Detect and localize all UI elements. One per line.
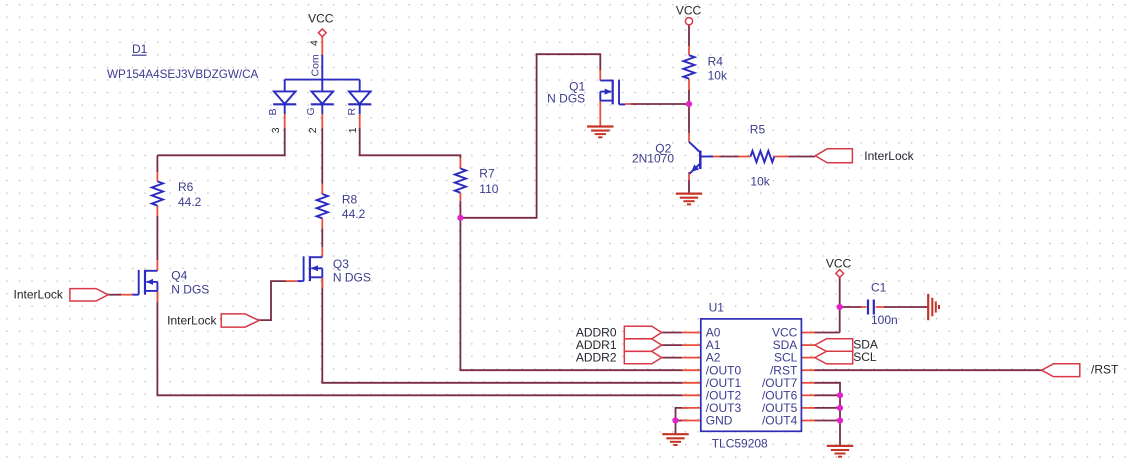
port ADDR0 <box>624 326 661 338</box>
wire R6 column vertical <box>156 155 158 172</box>
pin stub R7 bottom <box>459 193 461 201</box>
svg-text:10k: 10k <box>708 69 728 83</box>
ground C1 rotated <box>927 294 929 320</box>
pin stub Q2 emitter <box>688 172 690 180</box>
wire ADDR2 to A2 pin <box>662 357 682 359</box>
svg-text:Q4: Q4 <box>171 269 187 283</box>
wire Q4 source to /OUT2 row <box>156 291 158 395</box>
wire U1 VCC pin horizontal <box>814 332 840 334</box>
wire LED R to R7 <box>359 154 462 156</box>
ground right rail <box>827 445 853 447</box>
resistor R4 <box>683 55 694 78</box>
wire ADDR1 to A1 pin <box>662 344 682 346</box>
wire node to Q2 collector <box>688 104 690 133</box>
wire R7 bottom to junction <box>459 201 461 218</box>
junction R4 bottom node <box>686 101 692 107</box>
pin stub R6 top <box>156 172 158 181</box>
pin stub Q1 drain <box>599 70 601 81</box>
wire LED G cathode to R8 <box>321 128 323 184</box>
pin stub VCC com <box>321 37 323 56</box>
port InterLock (R5) <box>815 149 852 163</box>
pin stub U1 A1 <box>682 344 701 346</box>
wire R7 top stub <box>459 155 461 158</box>
LED D1 blue element pin 3 <box>284 80 286 92</box>
transistor Q2 <box>699 151 702 170</box>
pin stub Q3 gate <box>286 280 297 282</box>
capacitor C1 <box>867 300 869 315</box>
resistor R5 <box>751 151 775 162</box>
wire Q2 base to R5 <box>720 156 739 158</box>
wire right rail down to ground <box>839 382 841 446</box>
wire GND junction to ground <box>675 421 677 435</box>
wire /OUT4 stub to rail <box>814 420 840 422</box>
junction GND /OUT3 node <box>672 417 678 423</box>
svg-text:B: B <box>267 108 279 115</box>
wire R4 bottom to node <box>688 90 690 104</box>
wire /OUT5 stub to rail <box>814 407 840 409</box>
svg-text:2: 2 <box>307 127 319 133</box>
pin stub U1 /OUT7 <box>801 382 814 384</box>
pin stub R4 top <box>688 46 690 55</box>
resistor R6 <box>152 181 163 205</box>
svg-text:GND: GND <box>706 414 733 428</box>
svg-text:N DGS: N DGS <box>333 271 371 285</box>
svg-text:110: 110 <box>479 182 498 196</box>
svg-text:TLC59208: TLC59208 <box>712 437 768 451</box>
wire LED R cathode down <box>359 128 361 155</box>
op-amp U1 TLC59208 body <box>701 319 802 431</box>
pin stub Q1 source <box>599 101 601 127</box>
pin stub U1 /OUT2 <box>682 394 701 396</box>
pin stub R8 top <box>321 184 323 194</box>
svg-text:Com: Com <box>310 54 322 76</box>
pin stub U1 A0 <box>682 332 701 334</box>
svg-text:R8: R8 <box>342 193 358 207</box>
wire GND pin to junction <box>675 420 688 422</box>
pin stub R4 bottom <box>688 79 690 90</box>
port SCL <box>815 351 853 364</box>
wire /OUT3 to GND junction <box>676 408 689 421</box>
svg-text:1: 1 <box>347 127 359 133</box>
wire /OUT2 horizontal <box>157 394 684 396</box>
svg-text:100n: 100n <box>871 313 898 327</box>
port ADDR2 <box>624 351 661 363</box>
junction /OUT5 rail <box>837 405 843 411</box>
pin stub Q4 gate <box>121 294 132 296</box>
svg-text:R5: R5 <box>750 123 766 137</box>
pin stub C1 left <box>861 306 867 308</box>
svg-text:VCC: VCC <box>676 4 702 18</box>
pin stub R5 right <box>774 156 788 158</box>
wire /OUT0 horizontal <box>460 369 684 371</box>
wire /OUT1 horizontal <box>321 382 683 384</box>
transistor Q3 <box>303 256 305 281</box>
pin stub U1 /OUT5 <box>801 407 814 409</box>
LED D1 green element pin 2 <box>321 80 323 92</box>
transistor Q4 <box>138 270 140 295</box>
VCC symbol U1 (diamond) <box>836 270 844 278</box>
svg-text:R4: R4 <box>708 54 724 68</box>
pin stub U1 /RST <box>801 369 814 371</box>
svg-text:SCL: SCL <box>853 350 877 364</box>
pin stub U1 /OUT1 <box>682 382 701 384</box>
svg-text:44.2: 44.2 <box>342 207 366 221</box>
svg-text:U1: U1 <box>709 300 725 314</box>
ground under Q2 <box>676 193 702 195</box>
wire junction down to /OUT0 row <box>459 218 461 370</box>
svg-text:InterLock: InterLock <box>167 314 217 328</box>
port ADDR1 <box>624 339 661 351</box>
wire R6 to Q4 drain <box>156 216 158 260</box>
VCC symbol top right (circle) <box>685 18 692 25</box>
ground under Q1 <box>587 125 613 127</box>
diode D1 common bus <box>285 79 360 81</box>
svg-text:N DGS: N DGS <box>547 92 585 106</box>
pin stub Q1 gate <box>625 103 631 105</box>
svg-text:InterLock: InterLock <box>14 288 64 302</box>
wire VCC to R4 top <box>688 25 690 46</box>
pin stub U1 /OUT4 <box>801 420 814 422</box>
svg-text:D1: D1 <box>132 42 148 56</box>
pin stub R6 bottom <box>156 206 158 216</box>
junction R7 bottom node <box>457 215 463 221</box>
pin stub U1 /OUT0 <box>682 369 701 371</box>
svg-text:G: G <box>305 107 317 115</box>
pin stub U1 A2 <box>682 357 701 359</box>
pin stub Q3 source <box>321 278 323 289</box>
wire InterLock port to Q3 gate <box>259 281 286 320</box>
svg-text:C1: C1 <box>871 280 887 294</box>
resistor R7 <box>455 169 466 193</box>
pin stub R7 top <box>459 158 461 169</box>
wire junction to Q1 drain (right, up, right, down) <box>460 54 600 218</box>
junction /OUT6 rail <box>837 392 843 398</box>
wire R5 to InterLock port <box>789 156 816 158</box>
svg-text:/OUT4: /OUT4 <box>762 414 798 428</box>
wire Q1 gate to R4 node <box>631 103 690 105</box>
svg-text:2N1070: 2N1070 <box>632 152 674 166</box>
ground U1 GND <box>662 433 688 435</box>
pin stub R8 bottom <box>321 218 323 228</box>
svg-text:3: 3 <box>270 127 282 133</box>
svg-text:44.2: 44.2 <box>178 195 202 209</box>
resistor R8 <box>317 194 328 218</box>
pin stub U1 SCL <box>801 357 814 359</box>
pin stub R5 left <box>739 156 751 158</box>
port InterLock (Q3 gate) <box>221 314 259 327</box>
pin stub U1 SDA <box>801 344 814 346</box>
svg-text:/RST: /RST <box>1091 363 1119 377</box>
wire Q2 emitter to ground <box>688 180 690 194</box>
VCC symbol LED common (diamond) <box>318 29 326 37</box>
port InterLock (Q4 gate) <box>70 289 108 301</box>
pin stub C1 right <box>876 306 885 308</box>
pin stub Q2 base <box>713 156 720 158</box>
svg-text:WP154A4SEJ3VBDZGW/CA: WP154A4SEJ3VBDZGW/CA <box>107 68 259 81</box>
wire InterLock port to Q4 gate <box>108 294 121 296</box>
junction VCC C1 node <box>837 304 843 310</box>
svg-text:VCC: VCC <box>826 257 852 271</box>
svg-text:Q3: Q3 <box>333 257 349 271</box>
svg-text:ADDR2: ADDR2 <box>576 350 617 364</box>
LED D1 red element pin 1 <box>359 80 361 92</box>
junction /OUT4 rail <box>837 417 843 423</box>
svg-text:VCC: VCC <box>308 12 334 26</box>
wire R8 to Q3 drain <box>321 229 323 248</box>
svg-text:4: 4 <box>309 40 321 46</box>
port SDA <box>815 339 853 352</box>
wire VCC node to C1 <box>839 306 861 308</box>
wire ADDR0 to A0 pin <box>662 332 682 334</box>
svg-text:R: R <box>346 108 358 116</box>
pin stub U1 VCC <box>801 332 814 334</box>
wire /OUT6 stub to rail <box>814 394 840 396</box>
wire /RST to port <box>814 369 1042 371</box>
pin stub U1 /OUT3 <box>682 407 701 409</box>
port /RST <box>1042 364 1080 377</box>
wire U1 VCC rail vertical <box>839 277 841 332</box>
pin stub Q2 collector <box>688 133 690 142</box>
svg-text:R6: R6 <box>178 180 194 194</box>
pin stub Q4 source <box>156 291 158 302</box>
svg-text:N DGS: N DGS <box>171 282 209 296</box>
wire LED B cathode to R6 column <box>157 154 285 156</box>
pin stub U1 GND <box>682 420 701 422</box>
wire C1 to rotated ground <box>884 306 928 308</box>
pin stub Q4 drain <box>156 260 158 271</box>
svg-text:R7: R7 <box>479 167 495 181</box>
pin stub Q3 drain <box>321 247 323 257</box>
wire Q3 source to /OUT1 row <box>321 278 323 383</box>
pin stub U1 /OUT6 <box>801 394 814 396</box>
svg-text:InterLock: InterLock <box>864 149 914 163</box>
wire /OUT7 to right rail <box>814 382 840 384</box>
transistor Q1 <box>618 80 620 105</box>
svg-text:10k: 10k <box>750 175 770 189</box>
